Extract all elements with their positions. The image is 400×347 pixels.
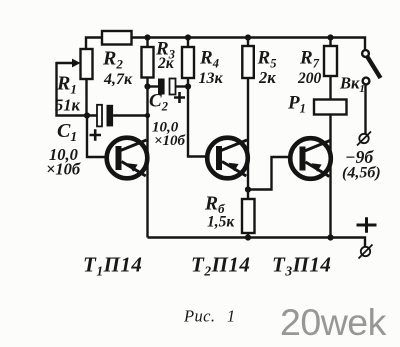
transistor T2 emitter stroke [222, 162, 246, 177]
wire Rb bottom lead [247, 233, 249, 238]
battery plus terminal slash [359, 245, 373, 259]
capacitor C1 negative plate (solid) [107, 105, 114, 127]
transistor T3 circle [290, 138, 331, 179]
node R3 top [144, 34, 150, 40]
svg-text:Рис. 1: Рис. 1 [183, 307, 236, 326]
switch Bk1 lever [368, 57, 381, 78]
transistor T3 collector stroke [305, 141, 331, 152]
svg-text:C1: C1 [57, 120, 77, 144]
wire left wire from wiper down to base node [57, 62, 98, 116]
wire R1 wiper arrow shaft [57, 62, 74, 64]
battery plus terminal (circle with slash) [361, 247, 370, 256]
wire T3 collector/emitter vertical line (P1 to bottom rail) [329, 115, 331, 238]
wire switch to battery minus terminal [364, 84, 366, 133]
C1 plus sign [90, 129, 102, 141]
svg-text:R4: R4 [199, 48, 219, 71]
svg-text:(4,5б): (4,5б) [342, 165, 381, 182]
transistor T2 collector stroke [221, 140, 247, 151]
resistor R5 (vertical body) [242, 46, 254, 78]
wire R5 top lead [247, 38, 249, 47]
wire R5 bottom lead down past T2 to Rb [247, 78, 249, 199]
svg-text:2к: 2к [157, 55, 175, 72]
transistor T1 emitter arrowhead (PNP) [128, 163, 138, 172]
node R5 top [245, 34, 251, 40]
svg-text:C2: C2 [149, 91, 168, 114]
svg-text:Т3П14: Т3П14 [272, 253, 331, 279]
transistor T1 collector stroke [121, 140, 147, 151]
resistor Rb (vertical body) [242, 199, 255, 233]
resistor R7 (vertical body) [324, 46, 337, 76]
resistor R3 (vertical body) [142, 47, 154, 78]
resistor R1 (variable, vertical body) [81, 49, 93, 79]
capacitor C1 positive plate (hollow) [97, 105, 102, 127]
wire top rail left corner above R1 [86, 38, 102, 50]
wire R7 top lead [329, 38, 331, 47]
transistor T3 emitter stroke [306, 162, 330, 177]
wire C1 right lead to T1 collector line [113, 114, 147, 116]
battery minus terminal (circle with slash) [359, 134, 368, 143]
transistor T3 emitter arrowhead (PNP) [312, 163, 322, 172]
capacitor C2 positive plate (hollow) [170, 79, 176, 95]
svg-text:R7: R7 [299, 48, 320, 71]
wire collector/emitter vertical line of T1 (R3 bottom to bottom rail) [146, 78, 148, 238]
switch Bk1 bottom contact [363, 78, 370, 85]
node R4 bottom / C2 junction [185, 83, 191, 89]
svg-text:1,5к: 1,5к [207, 214, 235, 231]
wire R1 wiper arrowhead [72, 59, 81, 68]
resistor R4 (vertical body) [182, 47, 194, 78]
svg-text:200: 200 [297, 70, 322, 87]
wire C2 right lead [176, 85, 189, 87]
node T3 emitter rail junction [327, 234, 333, 240]
node T2 emitter / T3 base junction [245, 186, 251, 192]
transistor T3 base bar [300, 147, 306, 171]
relay coil P1 (horizontal box) [314, 100, 347, 115]
svg-text:R2: R2 [102, 48, 123, 72]
wire R3 top lead [146, 38, 148, 48]
wire R4 bottom lead down to T2 base [188, 78, 209, 157]
node R7 top [327, 34, 333, 40]
wire T3 base jog [248, 157, 292, 190]
transistor T2 circle [207, 138, 248, 179]
svg-text:20wek: 20wek [280, 301, 387, 343]
wire R4 top lead [187, 38, 189, 48]
node T1 base node [84, 112, 90, 118]
transistor T2 base bar [216, 146, 222, 170]
svg-text:Р1: Р1 [287, 93, 306, 116]
wire R7 bottom lead to relay P1 [329, 76, 331, 100]
svg-text:Т2П14: Т2П14 [191, 253, 250, 279]
svg-text:13к: 13к [199, 70, 224, 87]
switch Bk1 top contact [362, 50, 369, 57]
node Rb bottom rail junction [245, 234, 251, 240]
svg-text:Т1П14: Т1П14 [83, 253, 142, 279]
svg-text:Вк1: Вк1 [339, 74, 365, 96]
resistor R2 (horizontal body on top rail) [102, 31, 132, 45]
wire bottom rail [148, 238, 366, 247]
C2 plus sign [174, 92, 185, 103]
svg-text:2к: 2к [258, 68, 276, 87]
capacitor C2 negative plate (solid) [158, 79, 165, 95]
svg-text:51к: 51к [55, 96, 81, 115]
node R3 bottom / C2 junction [144, 83, 150, 89]
svg-text:R1: R1 [56, 73, 77, 97]
transistor T1 base bar [116, 146, 122, 170]
svg-text:×10б: ×10б [46, 160, 81, 179]
battery plus sign [357, 217, 377, 232]
wire T1 base jog [87, 116, 108, 158]
transistor T1 emitter stroke [122, 162, 146, 177]
battery minus terminal slash [357, 132, 371, 146]
wire C2 left lead [148, 85, 159, 87]
transistor T1 circle [107, 138, 148, 179]
svg-text:×10б: ×10б [154, 133, 186, 149]
wire R1 bottom lead [85, 79, 87, 116]
wire top rail from R2 to switch [132, 38, 366, 51]
svg-text:4,7к: 4,7к [103, 71, 133, 88]
node C1-collector junction [145, 113, 150, 118]
transistor T2 emitter arrowhead (PNP) [229, 163, 239, 172]
node R4 top [185, 34, 191, 40]
